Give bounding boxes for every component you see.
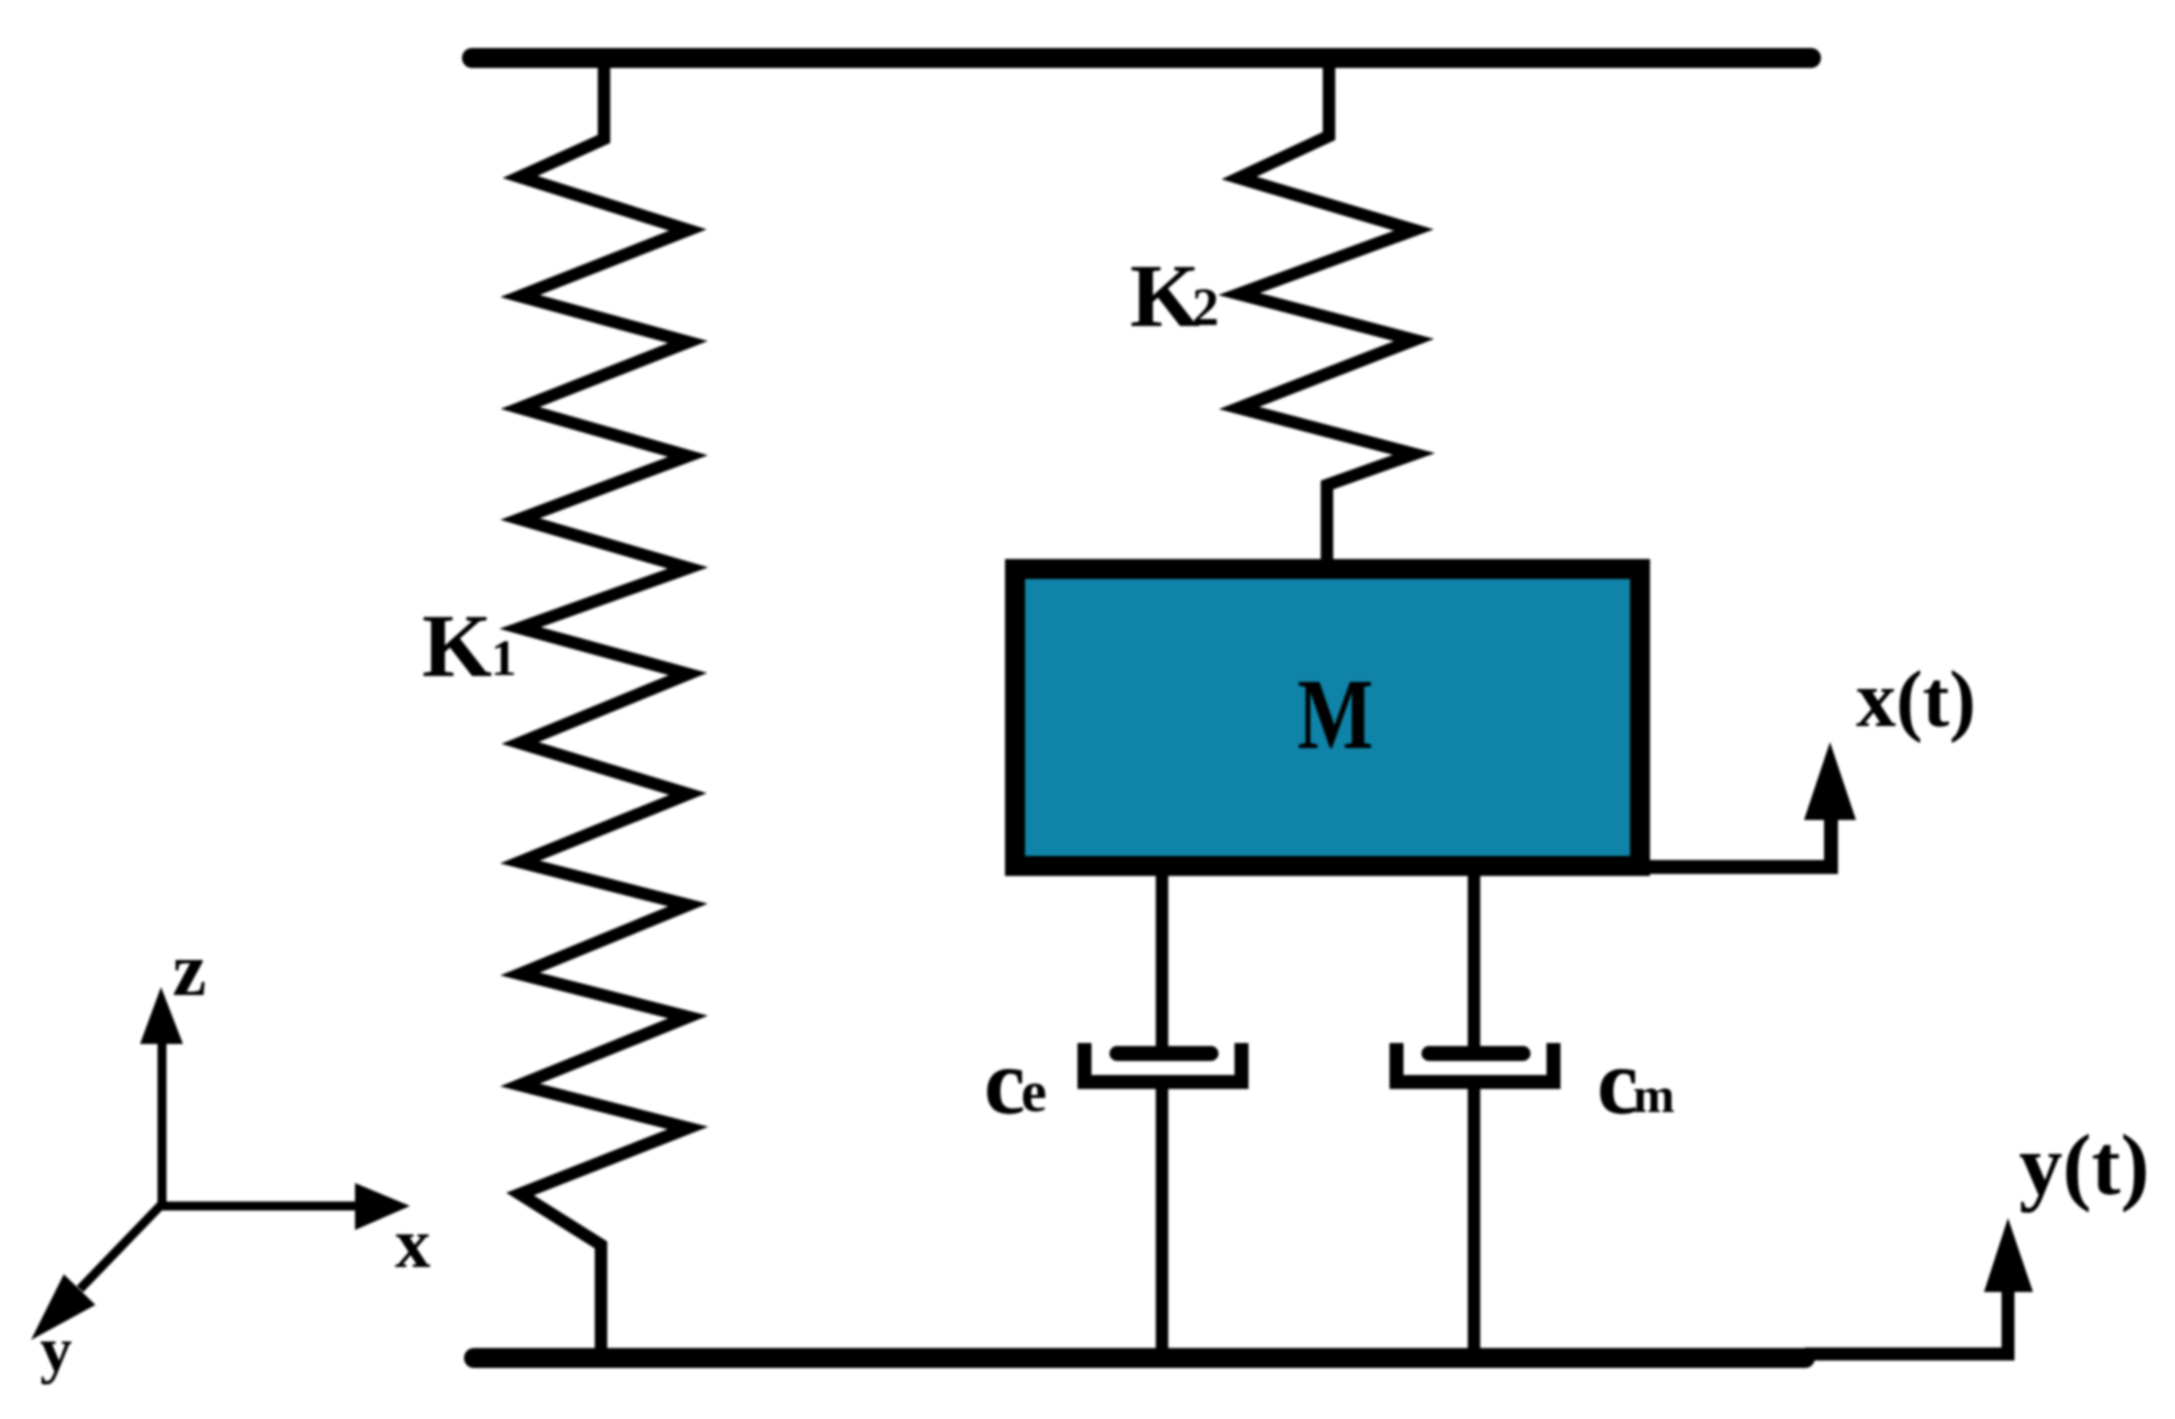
svg-text:x: x: [395, 1205, 431, 1283]
coord axes z shaft: [158, 1040, 167, 1204]
coord axes y arrowhead: [31, 1274, 95, 1340]
svg-text:c: c: [984, 1031, 1025, 1134]
damper ce piston plate: [1117, 1046, 1211, 1061]
svg-text:m: m: [1633, 1067, 1675, 1123]
damper cm piston rod (top): [1468, 876, 1481, 1058]
damper cm lower rod: [1468, 1089, 1481, 1358]
spring K1: [520, 58, 688, 1358]
svg-text:x(t): x(t): [1856, 656, 1976, 744]
coord axes x arrowhead: [355, 1183, 410, 1230]
y(t) connector wire from base: [1805, 1285, 2008, 1354]
x(t) connector wire from mass: [1650, 800, 1831, 867]
damper cm piston plate: [1429, 1046, 1523, 1061]
coord axes y shaft: [80, 1204, 162, 1289]
svg-text:z: z: [173, 928, 207, 1012]
svg-text:y: y: [40, 1314, 72, 1385]
damper ce piston rod (top): [1156, 876, 1169, 1058]
svg-text:e: e: [1021, 1059, 1047, 1124]
damper cm cylinder cup: [1397, 1043, 1554, 1082]
mass M (block): [1015, 569, 1640, 866]
x(t) arrowhead: [1804, 742, 1856, 820]
svg-text:2: 2: [1192, 277, 1219, 337]
spring K2: [1239, 58, 1414, 564]
y(t) arrowhead: [1984, 1218, 2033, 1292]
svg-text:K: K: [422, 597, 492, 696]
damper ce lower rod: [1156, 1089, 1169, 1358]
svg-text:K: K: [1130, 247, 1200, 346]
svg-text:M: M: [1297, 658, 1373, 770]
bottom fixed bar (base): [474, 1348, 1805, 1368]
svg-text:y(t): y(t): [2019, 1116, 2149, 1213]
damper ce cylinder cup: [1085, 1043, 1242, 1082]
top fixed bar (ceiling): [472, 48, 1811, 68]
coord axes z arrowhead: [140, 987, 183, 1044]
coord axes x shaft: [162, 1202, 358, 1211]
svg-text:1: 1: [491, 631, 517, 687]
